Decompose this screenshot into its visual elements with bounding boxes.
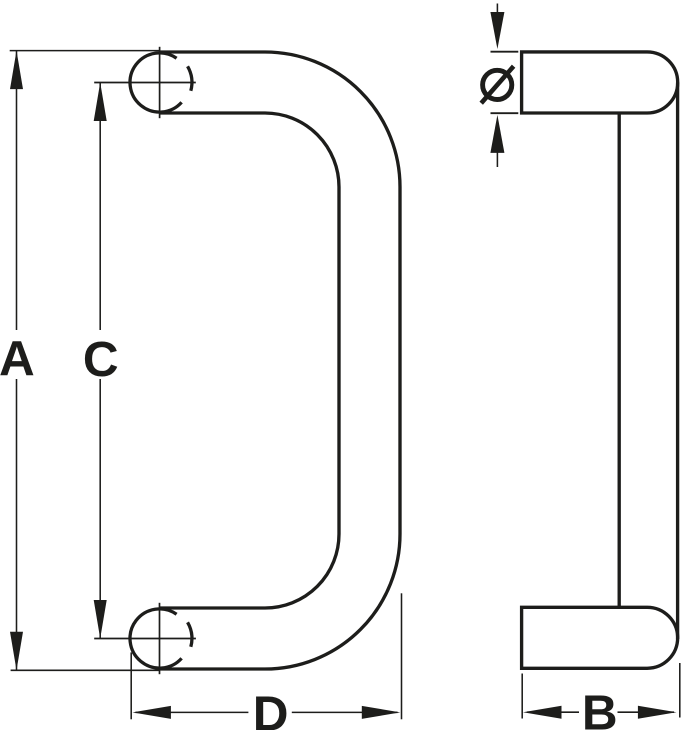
bottom fixing circle vertical centerline <box>159 603 161 674</box>
diameter top arrow shaft <box>496 4 498 13</box>
dimension D left arrowhead <box>132 706 171 719</box>
top fixing circle vertical centerline <box>159 47 161 118</box>
side view grip front edge <box>618 113 621 607</box>
diameter bottom tick line <box>491 112 519 114</box>
svg-text:B: B <box>582 685 618 730</box>
dimension B right arrowhead <box>638 706 677 719</box>
side view top leg cap <box>522 52 678 113</box>
dimension B left arrowhead <box>523 706 562 719</box>
dimension D left extension line <box>130 652 132 719</box>
top fixing circle dashed arc <box>188 66 192 91</box>
dimension B line left segment <box>527 711 579 713</box>
dimension C top arrowhead <box>94 83 107 122</box>
dimension D line left segment <box>136 711 249 713</box>
diameter bottom arrowhead <box>490 115 504 153</box>
diameter symbol slash <box>481 66 513 103</box>
front view outer contour <box>160 52 400 669</box>
diameter bottom arrow shaft <box>496 152 498 167</box>
top fixing circle solid arc <box>130 53 182 112</box>
dimension C line upper segment <box>99 83 101 330</box>
dimension C bottom arrowhead <box>94 600 107 639</box>
dimension A top extension line <box>10 50 160 52</box>
dimension A bottom arrowhead <box>10 632 23 671</box>
svg-text:C: C <box>83 332 119 387</box>
bottom fixing circle dashed arc <box>188 622 192 647</box>
dimension B left extension line <box>521 674 523 719</box>
side view bottom leg cap <box>522 607 678 668</box>
dimension A line upper segment <box>16 51 18 330</box>
dimension A line lower segment <box>16 379 18 670</box>
front view inner contour <box>160 113 339 608</box>
dimension A top arrowhead <box>10 51 23 90</box>
diameter symbol circle <box>483 70 512 99</box>
dimension B line right segment <box>618 711 675 713</box>
dimension D line right segment <box>292 711 398 713</box>
dimension A bottom extension line <box>11 669 160 671</box>
dimension D right extension line <box>401 593 403 719</box>
diameter top arrowhead <box>490 12 504 49</box>
top fixing circle horizontal centerline / C extension line <box>94 82 196 84</box>
dimension B right extension line <box>679 663 681 718</box>
dimension D right arrowhead <box>362 706 401 719</box>
diameter top tick line <box>491 51 519 53</box>
bottom fixing circle solid arc <box>130 609 182 668</box>
bottom fixing circle horizontal centerline / C extension line <box>94 638 196 640</box>
svg-text:D: D <box>253 687 289 730</box>
svg-text:A: A <box>0 331 35 386</box>
dimension C line lower segment <box>99 379 101 638</box>
side view grip outer edge <box>676 82 679 639</box>
